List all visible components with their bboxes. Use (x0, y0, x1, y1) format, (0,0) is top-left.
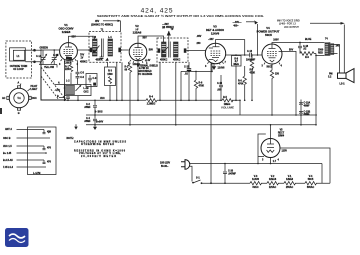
wire loop return (64, 85, 66, 101)
capacitor C-22A electrolytic (299, 103, 303, 105)
svg-text:L-4: L-4 (108, 36, 112, 39)
wire T2 to network box (108, 62, 123, 100)
junction dots on B- (295, 114, 297, 116)
svg-text:50-60~: 50-60~ (161, 166, 169, 168)
tube V1 pin stubs (61, 59, 77, 62)
wire T4 secondary to speaker (334, 45, 340, 74)
svg-text:@400~ FOR 1.3: @400~ FOR 1.3 (279, 23, 296, 26)
svg-text:50V: 50V (143, 37, 148, 39)
svg-text:470: 470 (47, 147, 52, 150)
svg-text:V2: V2 (135, 24, 139, 28)
svg-text:50V: 50V (149, 49, 154, 51)
svg-text:12BA6: 12BA6 (269, 178, 277, 181)
svg-text:12VAC: 12VAC (269, 186, 277, 189)
wire loop box upper lead (25, 49, 41, 51)
tube V1 envelope (60, 43, 78, 61)
svg-text:3: 3 (262, 65, 264, 67)
svg-text:2.2MEG: 2.2MEG (147, 104, 156, 106)
svg-text:OTHERWISE NOTED: OTHERWISE NOTED (81, 144, 114, 146)
svg-text:VOLUME: VOLUME (221, 105, 234, 109)
svg-text:C-22A: C-22A (304, 102, 311, 105)
svg-text:C-16: C-16 (217, 83, 223, 85)
svg-text:455KC: 455KC (80, 60, 88, 63)
AC plug (181, 162, 185, 167)
loop antenna turns (dashed) (41, 67, 66, 100)
svg-text:T-1: T-1 (17, 98, 21, 100)
dial lamp table box (28, 127, 57, 175)
svg-text:L-4.7M: L-4.7M (33, 172, 40, 175)
wire V1 plate to T2 (69, 36, 95, 42)
svg-text:(1000KC TO 455KC): (1000KC TO 455KC) (91, 24, 113, 27)
capacitor C-8 inside T2 (100, 56, 104, 61)
svg-text:50VAC: 50VAC (307, 186, 315, 189)
tube V3 plate (213, 44, 220, 47)
wire R-9 to B+ (314, 54, 325, 125)
svg-text:455KC: 455KC (173, 59, 181, 62)
svg-text:R-2: R-2 (125, 66, 129, 68)
svg-text:.047MF: .047MF (228, 173, 236, 176)
tube V3 cathode (212, 56, 219, 58)
svg-text:V-2: V-2 (271, 176, 275, 178)
svg-text:12BE6: 12BE6 (62, 30, 71, 34)
svg-text:3.2: 3.2 (328, 77, 332, 79)
loop terminal A (55, 84, 65, 86)
svg-text:C-3: C-3 (86, 104, 90, 106)
svg-text:12AV6: 12AV6 (211, 32, 220, 36)
svg-text:T4: T4 (325, 37, 328, 40)
resistor V4 cathode (270, 64, 273, 115)
wire T3 secondary return (159, 62, 161, 100)
tube V2 plate (135, 43, 142, 48)
gang tab left (7, 96, 10, 99)
oscillator coil L-2 box (65, 84, 91, 95)
svg-text:R-4: R-4 (149, 96, 153, 99)
svg-text:50C5: 50C5 (308, 179, 314, 181)
svg-text:7: 7 (225, 62, 227, 64)
svg-text:455KC: 455KC (160, 59, 168, 62)
wire T3 secondary to V3 (186, 50, 205, 52)
svg-text:G: G (18, 113, 20, 115)
tube V5 plate (267, 139, 274, 145)
svg-text:12AV6: 12AV6 (252, 178, 260, 181)
svg-text:YELLOW: YELLOW (44, 67, 55, 69)
heater string resistor 12BE6 (284, 182, 295, 185)
svg-text:.003: .003 (217, 90, 222, 92)
svg-text:50V: 50V (289, 49, 294, 51)
svg-text:B+ 2.45: B+ 2.45 (3, 152, 12, 155)
bus junction dots (129, 124, 131, 126)
loop antenna L1 main triangle (41, 67, 66, 100)
svg-text:LS-1: LS-1 (340, 84, 346, 86)
svg-text:V-4: V-4 (309, 175, 313, 178)
wire V2 plate to T3 (138, 36, 164, 43)
heater string resistor 12BA6 (267, 182, 278, 185)
svg-text:GROUNDED: GROUNDED (138, 71, 152, 73)
speaker LS-1 voice coil (338, 73, 347, 78)
svg-text:C-1B: C-1B (53, 55, 59, 57)
tube V1 grids (64, 50, 74, 54)
svg-text:105-125V: 105-125V (160, 163, 171, 165)
tube V3 heater (213, 60, 217, 62)
T2 side capacitor left (solid) (90, 48, 93, 53)
svg-text:12BA6: 12BA6 (133, 31, 142, 35)
svg-text:.02: .02 (303, 49, 307, 51)
svg-text:4: 4 (278, 158, 280, 161)
svg-text:470K: 470K (238, 82, 244, 85)
svg-text:4: 4 (146, 62, 148, 65)
capacitor C-20 line filter (223, 164, 227, 184)
wire V3 to coupling line (225, 54, 262, 56)
svg-text:L1: L1 (17, 56, 20, 58)
svg-text:1V: 1V (81, 57, 84, 59)
arrow to T3 (168, 31, 170, 42)
svg-text:RED: RED (318, 53, 323, 55)
svg-text:A: A (18, 82, 20, 85)
svg-text:S-1: S-1 (196, 177, 200, 179)
capacitor C-22B electrolytic (299, 112, 303, 114)
tube V3 diode plates (209, 48, 213, 59)
speaker cone (346, 69, 354, 83)
svg-text:-.46V: -.46V (208, 38, 214, 41)
wire V5 shield box (258, 134, 266, 164)
svg-text:OSC: OSC (32, 98, 37, 100)
wire V5 cathode output (270, 158, 272, 164)
svg-text:RESISTORS IN OHMS K=1000: RESISTORS IN OHMS K=1000 (74, 150, 126, 152)
svg-text:70V: 70V (80, 55, 85, 57)
transformer T4 secondary (331, 44, 334, 55)
svg-text:1.7: 1.7 (273, 161, 277, 163)
T3 side capacitor right (solid) (184, 48, 187, 52)
wire network box down (109, 86, 111, 101)
tube V2 envelope (129, 43, 147, 61)
capacitor C-4 (93, 115, 97, 125)
tube V1 heater (66, 57, 70, 59)
svg-text:35W4: 35W4 (278, 134, 285, 137)
wire detector row (181, 70, 212, 72)
svg-text:MEG: MEG (234, 64, 239, 66)
svg-text:NOTE:: NOTE: (67, 138, 74, 140)
tube V1 cathode (65, 54, 72, 56)
resistor R-8 box (232, 56, 242, 67)
svg-text:AVC 1.5: AVC 1.5 (3, 145, 12, 148)
wire V4 plate to T4 (272, 43, 325, 45)
filter line electrolytics (300, 100, 302, 125)
wire V2 cathode down (137, 61, 139, 100)
svg-text:AVC: AVC (100, 97, 105, 100)
svg-text:LIGHT: LIGHT (31, 89, 39, 91)
T3 tuning arrow (163, 47, 169, 53)
tube V3 envelope (205, 43, 225, 63)
tube V2 grids (133, 50, 143, 54)
svg-text:30MF: 30MF (304, 114, 311, 116)
svg-text:150: 150 (275, 73, 280, 75)
tube V5 cathode (267, 146, 274, 148)
T3 primary coil (162, 42, 167, 57)
capacitor C-2 (solid mark) (66, 56, 72, 60)
svg-text:400~: 400~ (233, 24, 239, 27)
wire B- return long vertical (210, 63, 212, 183)
svg-text:45V: 45V (95, 20, 100, 23)
ground stray left (75, 124, 77, 126)
svg-text:424, 425: 424, 425 (141, 8, 174, 15)
logo blue badge (5, 228, 29, 247)
svg-text:L-2B: L-2B (83, 88, 88, 90)
T2 side capacitor right (solid) (118, 48, 121, 53)
wire heater chain links (261, 182, 330, 184)
wire R-8 connections (235, 55, 237, 100)
svg-text:R-9: R-9 (305, 57, 309, 59)
wire loop box lower lead (25, 62, 41, 67)
coil L1 box (10, 48, 26, 61)
capacitor C-15 (188, 62, 190, 100)
T2 secondary coil (108, 39, 113, 56)
tube V3 grids (211, 51, 221, 55)
svg-text:C-6: C-6 (80, 77, 84, 79)
svg-text:1500: 1500 (107, 74, 113, 76)
svg-text:B+90V: B+90V (96, 122, 104, 124)
tube V4 cathode (269, 57, 276, 59)
svg-text:PM: PM (329, 74, 333, 76)
wire V1 grid3 stub (77, 49, 90, 51)
wire V5 heater right to chain (280, 148, 330, 183)
wire V3 diode returns (181, 63, 212, 100)
svg-text:.05MF: .05MF (84, 107, 91, 109)
svg-text:C-22B: C-22B (304, 111, 311, 113)
svg-text:C-5: C-5 (80, 72, 84, 74)
svg-text:7.45 2-L4: 7.45 2-L4 (3, 166, 14, 169)
svg-text:L-2: L-2 (66, 81, 70, 83)
svg-text:50C5: 50C5 (265, 33, 272, 37)
gang tab top (17, 86, 20, 88)
svg-text:T3: T3 (171, 29, 174, 31)
svg-text:100V: 100V (273, 39, 279, 41)
svg-text:R-1: R-1 (65, 66, 69, 68)
tube V5 envelope (261, 139, 280, 158)
wire annotation line to voice coil (310, 23, 344, 73)
svg-text:455KC: 455KC (96, 59, 104, 62)
wire V1 cathode down (64, 60, 66, 100)
svg-text:L-3: L-3 (93, 37, 97, 39)
capacitor C-7 under osc coil (66, 96, 70, 101)
wire AVC bus (65, 99, 241, 101)
svg-text:C-18: C-18 (303, 46, 309, 48)
svg-text:V-1: V-1 (288, 176, 292, 178)
svg-text:C-20: C-20 (228, 170, 234, 172)
wire heater line (202, 182, 251, 184)
svg-text:4.7: 4.7 (235, 60, 239, 63)
capacitor C-5 (76, 60, 80, 75)
trimmer capacitor C-1A (41, 50, 46, 65)
wire V5 plate up to B+ line (270, 125, 272, 139)
wire volume to C-22 node (239, 100, 241, 115)
antenna loop outside-turn dashed box (6, 41, 32, 78)
svg-text:R-3: R-3 (108, 71, 112, 73)
trimmer capacitor C-1B (52, 50, 57, 65)
svg-text:V-3: V-3 (254, 176, 258, 178)
svg-text:C-4: C-4 (86, 117, 90, 120)
svg-text:C-9: C-9 (93, 78, 97, 80)
svg-text:470: 470 (47, 161, 52, 164)
svg-text:1.4V: 1.4V (146, 59, 151, 62)
svg-text:CAPACITORS IN MMF UNLESS: CAPACITORS IN MMF UNLESS (74, 140, 126, 143)
svg-text:3: 3 (205, 66, 207, 68)
T2 primary coil (93, 39, 98, 56)
T3 side capacitor left (solid) (158, 48, 161, 52)
svg-text:ANT A: ANT A (5, 128, 12, 131)
svg-text:VAC OUTPUT: VAC OUTPUT (284, 26, 299, 29)
svg-text:R-6: R-6 (238, 80, 242, 82)
svg-text:C-15: C-15 (184, 67, 190, 69)
tube V4 plate (269, 44, 276, 48)
svg-text:125V: 125V (282, 151, 288, 153)
svg-text:12BE6: 12BE6 (286, 179, 294, 181)
T3 secondary coil (174, 42, 179, 57)
wire B- bus (86, 114, 317, 116)
network box R-3 below T2 (105, 67, 116, 86)
tube V2 cathode (135, 55, 142, 57)
tuning gang T1 outer (9, 88, 29, 108)
svg-text:B.A.5-A5: B.A.5-A5 (3, 159, 13, 162)
capacitor box C-9 (86, 74, 97, 87)
svg-text:3: 3 (262, 159, 264, 161)
svg-text:R-8: R-8 (234, 58, 238, 60)
wire T2 secondary to V2 grid (121, 49, 129, 51)
svg-text:C-1A: C-1A (36, 55, 42, 58)
svg-text:40MF: 40MF (304, 104, 311, 107)
tuning gang T1 inner (14, 93, 24, 103)
tube V4 envelope (262, 44, 282, 64)
loop terminal B (59, 97, 65, 99)
svg-text:12AV6: 12AV6 (218, 66, 226, 69)
T2 tuning arrow (94, 46, 100, 54)
capacitor C-16 (219, 75, 223, 100)
heater string resistor 50C5 (305, 182, 316, 185)
svg-text:230: 230 (197, 43, 202, 45)
svg-text:INTERNAL SHIELD: INTERNAL SHIELD (137, 64, 158, 67)
gang tab right (29, 96, 32, 99)
ground chassis at V3 (213, 64, 215, 66)
wire B+ bus (86, 124, 316, 126)
svg-text:R-6: R-6 (199, 82, 203, 84)
tube V3 pin stubs (208, 62, 224, 65)
tube V2 pin stubs (130, 60, 147, 63)
capacitor C-18 tone (298, 43, 302, 54)
svg-text:PILOT: PILOT (31, 86, 38, 88)
svg-text:20,000Ω/V METER: 20,000Ω/V METER (81, 156, 116, 158)
svg-text:OUTSIDE TURN: OUTSIDE TURN (10, 66, 28, 68)
transformer T4 primary (325, 43, 328, 56)
wire V4 grid (261, 54, 263, 55)
svg-text:B- BUS: B- BUS (95, 112, 103, 114)
resistor R-4 2.2MEG (in AVC bus) (146, 99, 157, 102)
svg-text:OSC B: OSC B (3, 138, 11, 140)
svg-text:4: 4 (281, 64, 283, 67)
svg-text:470K: 470K (250, 71, 256, 74)
tube V4 pin stubs (264, 63, 280, 66)
svg-text:22K: 22K (65, 69, 70, 71)
svg-text:-4.5V: -4.5V (55, 89, 61, 92)
svg-text:SENSITIVITY AND STAGE GAIN AT: SENSITIVITY AND STAGE GAIN AT ½ WATT OUT… (97, 14, 265, 18)
transformer T2 dashed box (89, 32, 121, 63)
wire AC hot (189, 164, 322, 184)
svg-text:BLUE: BLUE (305, 39, 312, 41)
svg-text:3300: 3300 (318, 50, 324, 52)
T2 core (102, 39, 104, 58)
transformer T3 dashed box (157, 38, 188, 62)
capacitor C-3 (93, 100, 97, 115)
resistor R-1 22K (70, 60, 72, 84)
volume control R-5 1MEG (222, 99, 233, 102)
svg-text:.02: .02 (185, 74, 189, 76)
capacitor C-6 (76, 75, 80, 84)
left edge scan mark (0, 108, 2, 114)
svg-text:35V: 35V (72, 37, 77, 39)
tube V4 grids (267, 51, 277, 55)
svg-text:AC: AC (2, 97, 6, 100)
tube V2 heater (136, 58, 140, 60)
svg-text:A: A (58, 81, 60, 84)
wire T3 primary feed down (175, 62, 177, 125)
svg-text:C-13: C-13 (247, 51, 253, 53)
tube V5 heater (267, 150, 275, 152)
svg-text:3: 3 (59, 64, 61, 66)
resistor R-2 (129, 63, 131, 64)
svg-text:—46V—: —46V— (233, 21, 242, 24)
svg-text:OSC: OSC (83, 92, 88, 94)
svg-text:68: 68 (125, 69, 128, 71)
wire V4 screen (279, 51, 296, 115)
tube V4 heater (270, 60, 274, 62)
ground below C-4 (94, 125, 96, 127)
svg-text:VOLTAGES AT 117 V LINE,: VOLTAGES AT 117 V LINE, (79, 152, 121, 155)
heater string resistor 12AV6 (250, 182, 261, 185)
gang tab bottom (17, 108, 20, 110)
resistor R-6 470K (194, 80, 197, 100)
tube V1 plate (65, 43, 72, 47)
wire V3 plate up and over (216, 40, 245, 55)
svg-text:0VAC: 0VAC (252, 186, 258, 189)
capacitor C-13 coupling (250, 53, 252, 57)
wire AC neutral to switch (189, 166, 192, 181)
svg-text:.05MF: .05MF (84, 121, 91, 123)
svg-text:V5: V5 (280, 129, 284, 131)
svg-text:6MV TO VOICE GRID: 6MV TO VOICE GRID (277, 20, 300, 22)
wire trimmer common (39, 65, 57, 68)
svg-text:470K: 470K (199, 84, 205, 87)
svg-text:RECT: RECT (278, 132, 285, 134)
svg-text:.05V: .05V (197, 36, 202, 38)
svg-text:OF LOOP: OF LOOP (13, 69, 24, 71)
svg-text:B: B (57, 96, 59, 98)
svg-text:& PIN 1C: & PIN 1C (139, 68, 149, 70)
wire osc coil to AVC line (77, 96, 79, 101)
svg-text:25VAC: 25VAC (286, 186, 294, 189)
T3 core (169, 42, 171, 58)
resistor R-9 (300, 52, 314, 56)
T4 core (328, 42, 331, 56)
svg-text:TO CHASSIS: TO CHASSIS (138, 73, 153, 76)
